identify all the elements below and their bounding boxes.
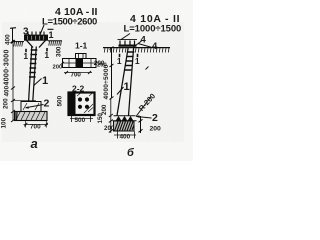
svg-text:1: 1 [23,51,28,61]
svg-text:4000÷5000: 4000÷5000 [103,64,110,99]
right footing block [114,121,135,131]
rebar dot 3 [78,105,82,109]
footing pad hatch [16,112,45,120]
rebar tips above ground right figure [120,41,135,47]
section mark 1 right of shaft [46,48,48,51]
shaft tie rungs [29,50,37,77]
right footing left dim line [110,98,112,133]
svg-text:500: 500 [75,117,86,124]
svg-text:L=1000÷1500: L=1000÷1500 [124,24,182,35]
section 1-1 strip [63,59,97,68]
svg-text:200: 200 [150,126,162,133]
bracket over rebar tips [118,39,138,41]
svg-text:500: 500 [57,95,64,106]
right dim 200 (footing height) [140,116,142,133]
footing top extension line [14,100,37,102]
svg-text:L=1500÷2600: L=1500÷2600 [42,17,97,28]
svg-text:2: 2 [152,112,158,124]
svg-text:150: 150 [97,113,104,124]
rebar dot 4 [85,105,89,109]
svg-text:700: 700 [71,72,82,79]
dim 500 under square [70,118,93,120]
strip middle dark cell [76,59,84,68]
ground line right figure [103,47,170,49]
svg-text:200: 200 [104,125,115,132]
svg-text:1: 1 [42,75,48,87]
leader from callout to cap [40,25,45,36]
item mark 1 above cap [48,28,54,30]
square left dark band [70,93,76,115]
right shaft right edge [129,48,134,116]
svg-text:200: 200 [53,65,63,71]
column cap (head) [24,35,48,41]
faint gray wash [2,22,184,142]
step hatch [23,103,39,110]
section 2-2 square [69,93,95,116]
dim 700 under strip [64,72,92,74]
leader line of R-200 [136,97,151,117]
rebar dot 2 [85,97,89,101]
cap brace right [39,40,46,47]
section 1-1 small top box [76,54,87,59]
column shaft right edge [33,47,37,102]
svg-text:400: 400 [4,85,11,96]
callout leader right figure [121,34,130,40]
section mark 1 left of right shaft [119,54,121,57]
rebar tips above cap [28,32,44,36]
svg-text:a: a [31,136,38,151]
cap brace left [27,40,34,47]
svg-text:4: 4 [141,35,147,46]
section mark 1 right of right shaft [137,54,139,57]
right shaft left edge [117,48,128,116]
chain ticks [11,41,15,123]
ground hatch right [49,41,62,46]
svg-text:1: 1 [135,56,140,66]
column shaft left edge [29,47,32,102]
svg-text:1: 1 [124,81,130,93]
right shaft tie rungs [125,52,135,70]
svg-text:700: 700 [30,123,41,130]
right dim chain line [111,48,113,98]
footing upper step [21,102,41,112]
left dim chain line [12,42,14,121]
block hatch dense [115,122,134,132]
svg-text:1: 1 [44,50,49,60]
svg-text:300: 300 [56,46,63,57]
ground hatch left [14,42,23,47]
bottom dim 400 under right footing [114,134,136,136]
strip mid line [63,62,97,64]
strip verticals [69,59,91,68]
svg-text:б: б [127,147,135,159]
dim 700 bottom: extension lines [26,121,47,128]
svg-text:1: 1 [117,56,122,66]
svg-text:100: 100 [1,117,8,128]
rebar dot 1 [78,97,82,101]
svg-text:400: 400 [120,134,131,141]
section mark 1 left of shaft [25,49,27,52]
faint scan noise [0,0,193,161]
svg-text:1-1: 1-1 [75,41,88,51]
svg-text:200: 200 [3,98,10,109]
svg-text:4: 4 [152,41,158,52]
dim 700 line [24,124,49,126]
right footing anchor plate [114,115,136,117]
svg-text:2: 2 [44,98,50,110]
plate triangle hatch [116,116,133,120]
svg-text:4000·3000: 4000·3000 [4,49,11,85]
svg-text:400: 400 [5,34,12,45]
ground hatch right figure [104,48,169,53]
ground line left of cap [13,41,24,43]
stray mark [146,67,149,70]
dim 400 top-left: dimension line [12,28,14,43]
ground line right of cap [48,40,62,42]
svg-text:1: 1 [49,30,54,40]
square inner hatch [77,93,93,114]
footing pad [15,112,48,121]
